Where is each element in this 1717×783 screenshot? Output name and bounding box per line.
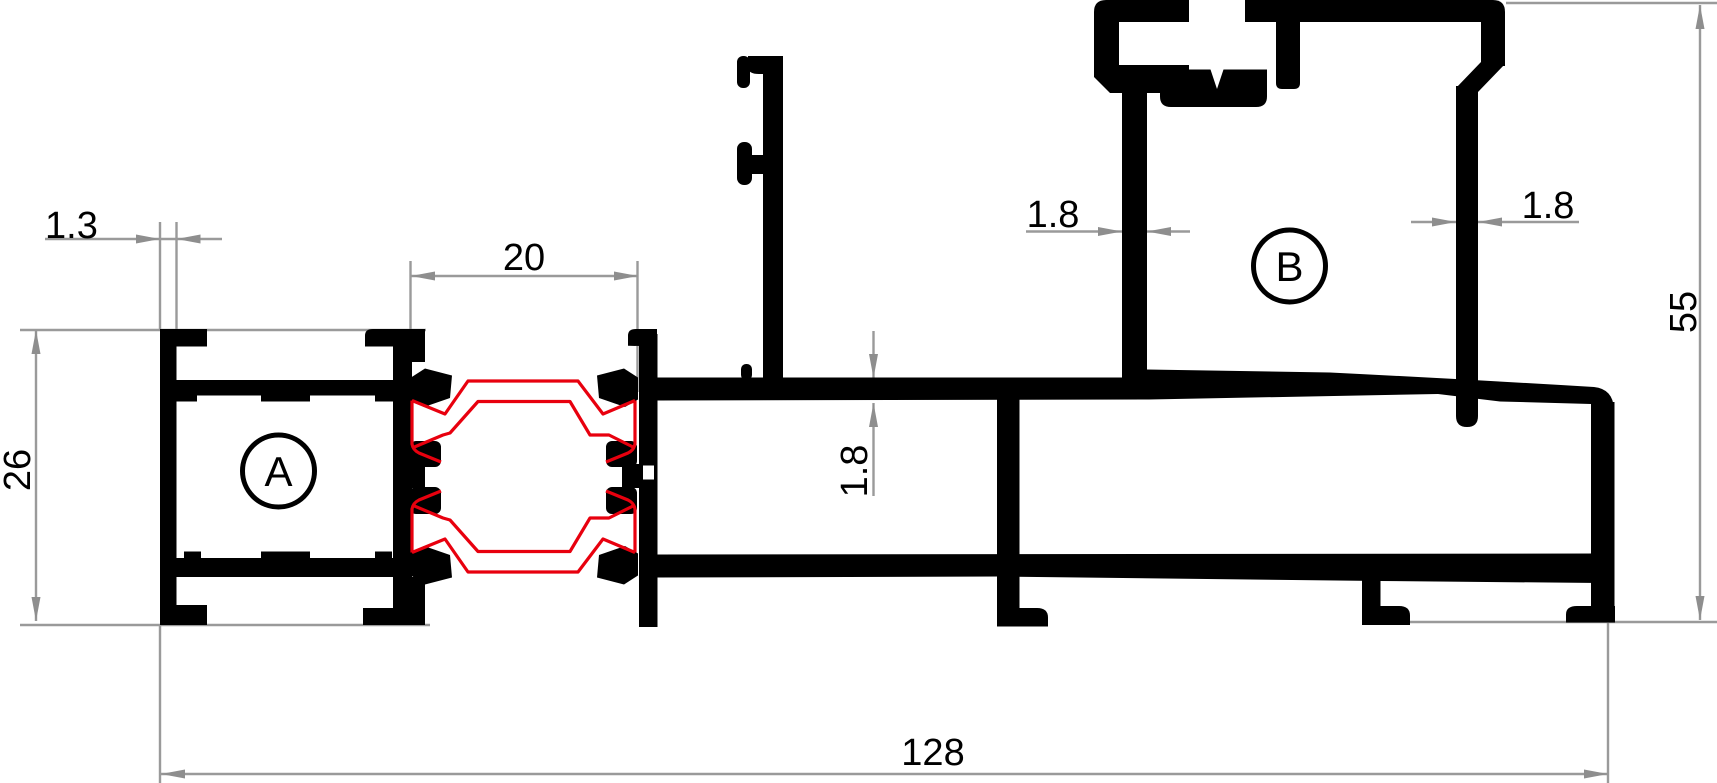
svg-text:B: B — [1275, 243, 1303, 290]
callout circle A — [243, 435, 315, 507]
dim 1.8 web lower line — [872, 403, 874, 496]
dim 20 extension line left — [409, 261, 411, 330]
svg-text:1.3: 1.3 — [45, 205, 98, 247]
sill top flange — [657, 370, 1614, 431]
dim 1.3 extension line left — [159, 222, 161, 330]
dim 55 line — [1699, 5, 1701, 620]
svg-text:26: 26 — [0, 449, 39, 491]
profile A bottom-left foot — [160, 605, 207, 625]
polyamide strip top — [412, 381, 635, 462]
dim 128 line — [161, 773, 1608, 775]
profile A bottom web lip 1 — [184, 552, 201, 559]
arrow 20 right — [614, 272, 638, 281]
dim 1.8 web upper line — [872, 331, 874, 378]
sill left foot pad — [1362, 606, 1410, 625]
profile A bottom-right lip — [411, 577, 425, 625]
sill divider wall — [997, 398, 1020, 627]
profile A top web — [176, 380, 412, 396]
thermal break right wall — [639, 334, 658, 627]
arrow 1.3 left — [136, 235, 160, 244]
grip flag top-left — [411, 369, 452, 408]
arrow 128 left — [161, 770, 185, 779]
dim 55 bottom extension line — [1363, 621, 1717, 623]
svg-text:55: 55 — [1663, 291, 1705, 333]
profile B right wall lower — [1456, 86, 1478, 427]
dim 26 line — [35, 330, 37, 621]
dim 1.3 line — [45, 238, 222, 240]
post top cap — [748, 56, 783, 74]
dim 128 left extension line — [159, 625, 161, 783]
arrow 26 bottom — [32, 597, 41, 621]
grip jaw right lower — [606, 487, 637, 514]
svg-text:20: 20 — [503, 237, 545, 279]
profile A top web lip 3 — [375, 395, 412, 402]
dim 1.3 extension line right — [175, 222, 177, 330]
arrow 128 right — [1584, 770, 1608, 779]
profile A top web lip 2 — [261, 395, 310, 402]
grip flag top-right — [597, 369, 638, 408]
arrow 1.8 B-right left — [1432, 218, 1456, 227]
profile B right wall upper — [1481, 16, 1505, 66]
dim 55 top extension line — [1506, 2, 1717, 4]
post middle clip bar — [737, 142, 752, 185]
arrow 1.8 web upper — [869, 354, 878, 378]
svg-text:A: A — [264, 448, 292, 495]
arrow 1.3 right — [177, 235, 201, 244]
arrow 55 bottom — [1696, 596, 1705, 620]
sill left foot stem — [1362, 575, 1381, 625]
post bottom nub — [741, 364, 752, 380]
svg-text:1.8: 1.8 — [1027, 194, 1080, 236]
profile A bottom web lip 2 — [261, 552, 310, 559]
profile A bottom web — [176, 558, 412, 577]
grip flag bottom-left — [411, 546, 452, 585]
profile A bottom web lip 3 — [375, 552, 392, 559]
profile B castellation V-notch — [1210, 68, 1224, 89]
grip jaw right upper — [606, 441, 637, 467]
arrow 1.8 B-left left — [1098, 227, 1122, 236]
profile A left wall — [160, 329, 177, 625]
sill divider foot pad — [997, 608, 1048, 627]
svg-text:128: 128 — [901, 732, 964, 774]
sill bottom band — [657, 554, 1600, 584]
profile A top-left hook — [160, 329, 207, 347]
post stem — [763, 56, 783, 380]
dim 26 top extension line — [20, 329, 426, 331]
right wall waist notch — [643, 466, 654, 480]
svg-text:1.8: 1.8 — [1522, 185, 1575, 227]
sill right foot pad — [1566, 606, 1615, 623]
profile A right wall — [393, 340, 412, 608]
grip jaw right waist — [622, 464, 644, 488]
profile A right flange lip — [411, 329, 425, 362]
arrow 1.8 web lower — [869, 403, 878, 427]
profile A bottom-right foot — [363, 608, 425, 625]
dim 20 line — [411, 275, 638, 277]
profile B hanging column — [1276, 22, 1300, 89]
profile B top-right bar — [1245, 0, 1505, 22]
arrow 1.8 B-right right — [1478, 218, 1502, 227]
svg-text:1.8: 1.8 — [834, 445, 876, 498]
profile B castellation lower bar — [1160, 70, 1267, 108]
post top cap lip — [737, 56, 750, 88]
grip flag bottom-right — [597, 546, 638, 585]
callout circle B — [1254, 230, 1326, 302]
dim 1.8 B-left line — [1026, 230, 1190, 232]
thermal break right wall top hook — [628, 329, 657, 346]
grip jaw left lower — [410, 487, 441, 514]
profile B top-left bar and pocket — [1094, 0, 1189, 93]
arrow 26 top — [32, 330, 41, 354]
profile A top web lip 1 — [176, 395, 197, 402]
arrow 1.8 B-left right — [1147, 227, 1171, 236]
post middle clip arm — [749, 155, 766, 174]
grip jaw left upper — [410, 441, 441, 467]
dim 128 right extension line — [1607, 621, 1609, 783]
profile A top-right hook — [365, 329, 425, 347]
dim 26 bottom extension line — [20, 624, 430, 626]
sill right edge wall — [1591, 402, 1615, 622]
arrow 55 top — [1696, 5, 1705, 29]
dim 1.8 B-right line — [1411, 221, 1579, 223]
dim 20 extension line right — [636, 261, 638, 392]
polyamide strip bottom — [412, 491, 635, 572]
profile B right wall chamfer — [1456, 62, 1505, 92]
arrow 20 left — [411, 272, 435, 281]
profile B left wall — [1122, 86, 1147, 396]
grip jaw left waist — [403, 464, 425, 488]
